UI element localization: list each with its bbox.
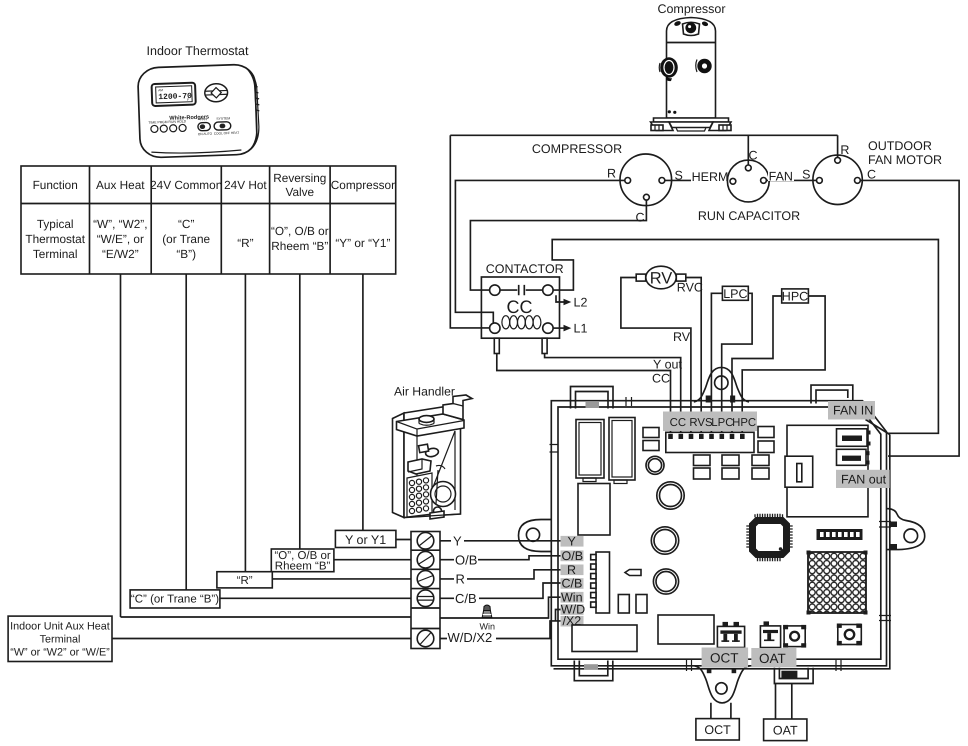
svg-text:OAT: OAT: [773, 724, 798, 738]
svg-text:C/B: C/B: [562, 577, 583, 591]
svg-text:“W” or “W2” or “W/E”: “W” or “W2” or “W/E”: [10, 647, 110, 659]
svg-text:R: R: [607, 167, 616, 181]
svg-text:SYSTEM: SYSTEM: [216, 116, 230, 120]
svg-text:RVC: RVC: [677, 281, 703, 295]
svg-text:COMPRESSOR: COMPRESSOR: [532, 142, 622, 156]
svg-text:L1: L1: [574, 322, 588, 336]
svg-text:S: S: [802, 167, 810, 181]
svg-text:HERM: HERM: [692, 170, 729, 184]
svg-text:“W/E”, or: “W/E”, or: [97, 232, 144, 246]
svg-text:Indoor Thermostat: Indoor Thermostat: [147, 44, 249, 58]
svg-text:Terminal: Terminal: [40, 634, 81, 646]
svg-text:W/D/X2: W/D/X2: [448, 630, 493, 645]
svg-text:RV: RV: [650, 270, 673, 288]
svg-text:R: R: [456, 572, 465, 587]
svg-text:C: C: [867, 167, 876, 181]
svg-text:24V Hot: 24V Hot: [224, 178, 267, 192]
svg-text:Terminal: Terminal: [33, 247, 78, 261]
svg-text:OCT: OCT: [704, 723, 731, 737]
svg-text:LPC: LPC: [723, 287, 747, 301]
svg-text:FAN: FAN: [200, 117, 207, 121]
svg-text:“C”: “C”: [178, 217, 194, 231]
svg-text:Y or Y1: Y or Y1: [345, 533, 386, 547]
svg-text:FAN IN: FAN IN: [833, 404, 873, 418]
svg-text:Air Handler: Air Handler: [394, 385, 455, 399]
svg-text:Indoor Unit Aux Heat: Indoor Unit Aux Heat: [10, 621, 110, 633]
svg-text:C: C: [748, 149, 757, 163]
svg-text:Rheem “B”: Rheem “B”: [271, 239, 328, 253]
svg-text:Typical: Typical: [37, 217, 74, 231]
svg-text:“R”: “R”: [237, 236, 253, 250]
svg-text:R: R: [840, 143, 849, 157]
svg-text:“B”): “B”): [176, 247, 196, 261]
svg-text:“E/W2”: “E/W2”: [102, 247, 139, 261]
svg-text:Function: Function: [33, 178, 78, 192]
svg-text:“R”: “R”: [237, 575, 253, 587]
svg-text:HPC: HPC: [732, 417, 756, 429]
svg-text:R: R: [567, 563, 576, 577]
svg-text:“W”, “W2”,: “W”, “W2”,: [93, 217, 147, 231]
svg-text:Aux Heat: Aux Heat: [96, 178, 145, 192]
svg-text:Reversing: Reversing: [273, 171, 326, 185]
svg-text:Compressor: Compressor: [657, 2, 725, 16]
svg-text:RVS: RVS: [689, 417, 713, 429]
svg-text:FAN out: FAN out: [841, 473, 887, 487]
svg-text:FAN: FAN: [769, 170, 793, 184]
svg-text:“O”, O/B or: “O”, O/B or: [271, 224, 329, 238]
svg-text:OAT: OAT: [759, 651, 786, 666]
svg-text:L2: L2: [574, 296, 588, 310]
svg-text:CONTACTOR: CONTACTOR: [486, 262, 564, 276]
svg-text:S: S: [675, 169, 683, 183]
svg-text:“C” (or Trane “B”): “C” (or Trane “B”): [131, 594, 219, 606]
svg-text:Y: Y: [568, 534, 577, 548]
svg-text:Compressor: Compressor: [331, 178, 395, 192]
svg-text:Rheem “B”: Rheem “B”: [275, 561, 331, 573]
svg-text:(or Trane: (or Trane: [162, 232, 210, 246]
svg-text:CC: CC: [670, 417, 686, 429]
svg-text:RUN CAPACITOR: RUN CAPACITOR: [698, 209, 800, 223]
svg-text:CC: CC: [507, 297, 533, 317]
svg-text:O/B: O/B: [455, 552, 477, 567]
svg-text:O/B: O/B: [562, 549, 584, 563]
svg-text:HPC: HPC: [782, 289, 808, 303]
svg-text:OCT: OCT: [710, 651, 739, 666]
svg-text:LPC: LPC: [711, 417, 733, 429]
svg-text:Y: Y: [453, 533, 462, 548]
svg-text:ON AUTO: ON AUTO: [198, 132, 213, 137]
svg-text:RV: RV: [673, 330, 691, 344]
svg-text:Win: Win: [480, 622, 496, 632]
svg-text:C: C: [635, 211, 644, 225]
svg-text:Y out: Y out: [653, 357, 682, 371]
svg-text:AM: AM: [158, 88, 163, 92]
svg-text:F: F: [187, 98, 189, 102]
svg-text:Valve: Valve: [285, 185, 314, 199]
svg-text:24V Common: 24V Common: [150, 178, 222, 192]
svg-text:OUTDOOR: OUTDOOR: [868, 139, 932, 153]
svg-text:C/B: C/B: [455, 591, 477, 606]
svg-text:“Y” or “Y1”: “Y” or “Y1”: [335, 236, 390, 250]
svg-text:CC: CC: [652, 372, 670, 386]
svg-text:Thermostat: Thermostat: [25, 232, 85, 246]
svg-text:FAN MOTOR: FAN MOTOR: [868, 153, 942, 167]
